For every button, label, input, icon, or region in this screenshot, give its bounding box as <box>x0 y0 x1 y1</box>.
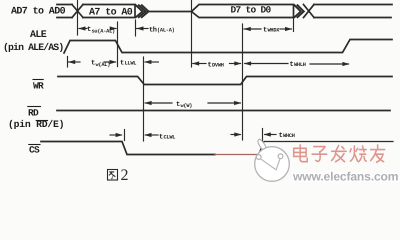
svg-text:th: th <box>149 26 157 35</box>
wire CS low faded red segment <box>215 154 258 156</box>
caption 图 2 glyph <box>108 170 118 181</box>
measure t su(A-AL) arrows <box>79 28 87 30</box>
wire bus left segment bottom <box>57 17 72 19</box>
svg-text:2: 2 <box>121 167 129 184</box>
measure t WHCH left arrow <box>231 134 240 136</box>
logo connecting lines <box>261 159 281 170</box>
svg-text:D7 to D0: D7 to D0 <box>231 5 272 16</box>
bus crossover X1 <box>72 5 83 18</box>
wire WR waveform <box>58 77 392 85</box>
measure t WHDX arrows <box>244 28 261 30</box>
char 发 <box>332 145 347 161</box>
measure arrow at CS fall <box>110 134 121 136</box>
wire bus right segment <box>314 5 392 18</box>
watermark text 电子发烧友 (drawn strokes) <box>294 145 385 162</box>
guide bar at CS rise <box>262 129 264 147</box>
measure t DVWH arrows <box>193 63 206 65</box>
svg-text:ALE: ALE <box>30 30 47 41</box>
svg-text:WR: WR <box>33 80 44 91</box>
char 友 <box>371 145 385 162</box>
svg-text:AD7 to AD0: AD7 to AD0 <box>11 6 66 17</box>
svg-text:t: t <box>120 60 124 68</box>
guide line at D-bus open <box>191 1 193 68</box>
wire ALE waveform <box>64 40 392 54</box>
svg-text:t: t <box>263 27 267 35</box>
measure t CLWL arrow <box>145 134 158 136</box>
svg-text:t: t <box>91 60 95 68</box>
svg-text:t: t <box>208 62 212 70</box>
svg-text:RD: RD <box>28 108 39 119</box>
watermark logo circle <box>255 139 290 181</box>
measure tw(W) arrows <box>145 102 172 104</box>
bus chevrons after A segment <box>136 5 143 17</box>
svg-text:(AL-A): (AL-A) <box>157 28 175 34</box>
bus segment A7 to A0 <box>83 5 135 18</box>
measure t w(AL) bar and arrows <box>67 57 69 68</box>
svg-text:t: t <box>176 101 180 109</box>
wire CS waveform high and fall <box>41 142 215 155</box>
svg-text:t: t <box>279 132 283 140</box>
measure th(AL-A) arrow <box>136 28 148 30</box>
measure tWHLH arrows <box>245 63 288 65</box>
svg-text:WHLH: WHLH <box>294 62 306 68</box>
logo node circles <box>256 155 261 160</box>
guide line at ALE fall <box>117 22 119 67</box>
svg-text:DVWH: DVWH <box>212 63 224 69</box>
guide bar at CS fall <box>124 130 126 141</box>
guide line at WR rise <box>242 24 244 140</box>
signal label RD/E overline <box>36 120 47 122</box>
svg-text:CS: CS <box>29 144 40 155</box>
wire RD waveform <box>57 110 390 112</box>
svg-text:t: t <box>87 26 91 34</box>
guide line at bus X1 <box>77 1 79 36</box>
svg-text:WHDX: WHDX <box>268 28 281 34</box>
svg-text:t: t <box>159 134 163 142</box>
svg-text:A7 to A0: A7 to A0 <box>89 7 133 18</box>
svg-text:(pin ALE/AS): (pin ALE/AS) <box>3 42 63 53</box>
svg-text:su(A-AL): su(A-AL) <box>92 29 116 35</box>
svg-text:LLWL: LLWL <box>125 61 137 67</box>
bus segment D7 to D0 <box>192 5 294 18</box>
wire bus mid single line <box>149 11 192 13</box>
signal label CS overline <box>29 144 40 146</box>
svg-text:www.elecfans.com: www.elecfans.com <box>292 169 398 183</box>
svg-text:w(AL): w(AL) <box>96 62 111 68</box>
svg-text:WHCH: WHCH <box>283 133 295 139</box>
guide line at WR fall <box>143 57 145 141</box>
measure t LLWL arrow <box>145 61 158 63</box>
bus crossover X2 <box>304 5 315 18</box>
svg-text:w(W): w(W) <box>181 103 193 109</box>
char 烧 <box>350 146 366 162</box>
svg-text:CLWL: CLWL <box>164 135 176 141</box>
signal label RD overline <box>28 106 41 108</box>
svg-text:t: t <box>290 61 294 69</box>
char 子 <box>312 147 327 162</box>
bus chevrons after D segment <box>295 5 301 17</box>
guide line at D-bus close <box>293 18 295 32</box>
guide line at A-bus close <box>135 20 137 36</box>
wire bus left segment top <box>57 4 72 6</box>
measure t WHCH right arrow <box>265 134 276 136</box>
wire CS rise and right high <box>259 142 394 155</box>
char 电 <box>294 145 308 162</box>
signal label WR overline <box>33 79 43 81</box>
